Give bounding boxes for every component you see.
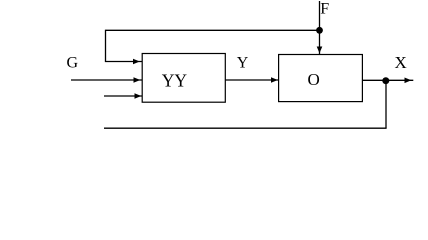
wire G input [71,79,143,81]
arrowhead into O [271,77,278,83]
svg-text:X: X [395,53,407,72]
arrowhead lower input [135,93,142,99]
junction F dot [316,27,323,34]
svg-text:О: О [308,70,320,89]
svg-text:Y: Y [237,55,249,72]
wire feedback bottom horizontal [104,127,387,129]
wire top feedback horizontal (F junction to left corner) [106,29,320,31]
arrowhead F into O box [317,47,323,54]
wire into UU top input [105,61,143,63]
wire UU to O [225,79,279,81]
wire O output to X [362,79,413,81]
block O [279,55,363,102]
wire F vertical input [319,1,321,55]
svg-text:G: G [67,55,79,72]
svg-text:F: F [320,1,329,18]
arrowhead G input [134,77,141,83]
svg-text:YY: YY [162,71,188,91]
arrowhead UU top input [133,59,140,65]
arrowhead X output [405,78,412,84]
block UU [142,54,225,103]
wire lower input to UU [104,95,143,97]
wire left feedback vertical drop [105,30,107,62]
junction output dot [382,77,389,84]
wire feedback vertical from output dot [385,81,387,129]
